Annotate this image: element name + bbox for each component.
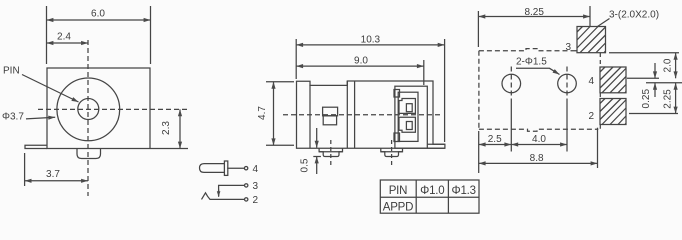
svg-text:3.7: 3.7 bbox=[46, 169, 60, 180]
dimension 4.7 bbox=[266, 82, 294, 146]
pad square 3 bbox=[577, 27, 606, 53]
schematic plug tip bar bbox=[224, 161, 227, 175]
svg-text:PIN: PIN bbox=[3, 66, 20, 77]
svg-text:8.25: 8.25 bbox=[524, 7, 544, 18]
schematic switch lever bbox=[202, 193, 245, 200]
svg-text:0.5: 0.5 bbox=[300, 158, 311, 172]
label 3-(2.0X2.0) leader bbox=[598, 19, 610, 27]
svg-text:0.25: 0.25 bbox=[641, 89, 652, 109]
dimension 2.0 and 2.25 bbox=[675, 53, 677, 114]
svg-text:2.3: 2.3 bbox=[161, 121, 172, 135]
svg-text:4.0: 4.0 bbox=[532, 134, 546, 145]
svg-text:3: 3 bbox=[253, 181, 259, 192]
svg-text:3: 3 bbox=[566, 42, 572, 53]
svg-text:APPD: APPD bbox=[383, 202, 414, 214]
connector block latch upper bbox=[394, 90, 400, 98]
middle view centerline bbox=[283, 114, 440, 116]
right side extension lines bbox=[609, 53, 682, 114]
dimension 0.25 bbox=[654, 63, 656, 97]
schematic pin 3 contact arrow bbox=[218, 190, 220, 197]
middle view switch detail upper bbox=[323, 107, 338, 116]
dimension 2.3 bbox=[151, 109, 189, 148]
middle view leg 2 bbox=[381, 148, 403, 156]
dimension 3.7 bbox=[25, 153, 88, 186]
middle view switch detail lower bbox=[323, 116, 336, 125]
svg-text:3-(2.0X2.0): 3-(2.0X2.0) bbox=[609, 10, 659, 21]
svg-text:6.0: 6.0 bbox=[91, 9, 105, 20]
left view horizontal centerline bbox=[38, 108, 188, 110]
dimension 10.3 bbox=[296, 39, 444, 142]
dimension 6.0 bbox=[47, 6, 151, 64]
svg-text:PIN: PIN bbox=[389, 185, 408, 197]
schematic pin 3 terminal bbox=[245, 184, 248, 187]
dimension 2.4 bbox=[47, 42, 89, 44]
middle view body outline bbox=[297, 81, 445, 148]
left view outer circle bbox=[57, 78, 120, 141]
schematic pin 4 terminal bbox=[244, 167, 247, 170]
svg-text:9.0: 9.0 bbox=[354, 56, 368, 67]
terminal lower bbox=[399, 117, 415, 132]
svg-text:Φ1.3: Φ1.3 bbox=[452, 185, 476, 197]
svg-text:4: 4 bbox=[589, 76, 595, 87]
right view outline connector segments bbox=[573, 51, 601, 130]
svg-text:Φ3.7: Φ3.7 bbox=[2, 112, 24, 123]
svg-text:2.5: 2.5 bbox=[488, 134, 502, 145]
middle view internal divider right B bbox=[354, 81, 356, 148]
pad square 4 bbox=[600, 67, 626, 93]
svg-text:2.0: 2.0 bbox=[663, 58, 674, 72]
PIN leader bbox=[22, 75, 79, 103]
middle view leg 1 bbox=[319, 148, 342, 156]
left view vertical centerline bbox=[87, 40, 89, 196]
svg-text:Φ1.0: Φ1.0 bbox=[420, 185, 444, 197]
schematic pin 3 wire bbox=[219, 185, 245, 196]
right view outline left edge bbox=[478, 51, 480, 130]
middle view leg 2 centerline bbox=[391, 140, 393, 166]
left view inner circle bbox=[78, 99, 99, 120]
schematic pin 2 terminal bbox=[245, 198, 248, 201]
right view outline bottom edge bbox=[479, 129, 598, 131]
dimension 8.25 bbox=[478, 6, 590, 47]
svg-text:10.3: 10.3 bbox=[361, 35, 381, 46]
pad square 2 bbox=[600, 99, 626, 125]
svg-text:2.4: 2.4 bbox=[57, 32, 71, 43]
svg-text:8.8: 8.8 bbox=[530, 153, 544, 164]
terminal upper bbox=[399, 99, 415, 114]
middle view right tab bbox=[427, 144, 445, 148]
svg-text:2: 2 bbox=[589, 111, 595, 122]
dimension 9.0 bbox=[296, 60, 424, 85]
label 2-phi1.5 leader bbox=[516, 68, 560, 74]
left view body bbox=[47, 68, 150, 149]
table grid bbox=[380, 180, 479, 213]
hole left bbox=[502, 67, 521, 100]
right view outline top edge bbox=[479, 49, 573, 51]
svg-text:2-Φ1.5: 2-Φ1.5 bbox=[516, 57, 547, 68]
phi3.7 leader bbox=[26, 117, 55, 119]
dimension 4.0 bbox=[511, 144, 567, 146]
svg-text:2.25: 2.25 bbox=[663, 89, 674, 109]
dimension 0.5 bbox=[313, 128, 321, 174]
svg-text:4.7: 4.7 bbox=[257, 106, 268, 120]
connector block latch lower bbox=[394, 133, 400, 142]
dimension 2.5 4.0 extension lines bbox=[479, 99, 598, 173]
schematic pin 4 wire bbox=[227, 167, 244, 169]
schematic plug barrel bbox=[200, 164, 225, 173]
dimension 2.5 bbox=[479, 144, 512, 146]
middle view internal divider left bbox=[309, 85, 311, 148]
left view mounting flange bbox=[25, 145, 47, 148]
hole right bbox=[558, 67, 577, 100]
left view bottom post bbox=[77, 149, 101, 159]
connector block outer bbox=[395, 86, 427, 148]
dimension 8.8 bbox=[479, 162, 598, 164]
connector block inner bbox=[398, 92, 418, 141]
middle view leg 1 centerline bbox=[330, 140, 332, 166]
svg-text:2: 2 bbox=[253, 195, 259, 206]
middle view internal divider right A bbox=[346, 81, 348, 148]
svg-text:4: 4 bbox=[253, 164, 259, 175]
